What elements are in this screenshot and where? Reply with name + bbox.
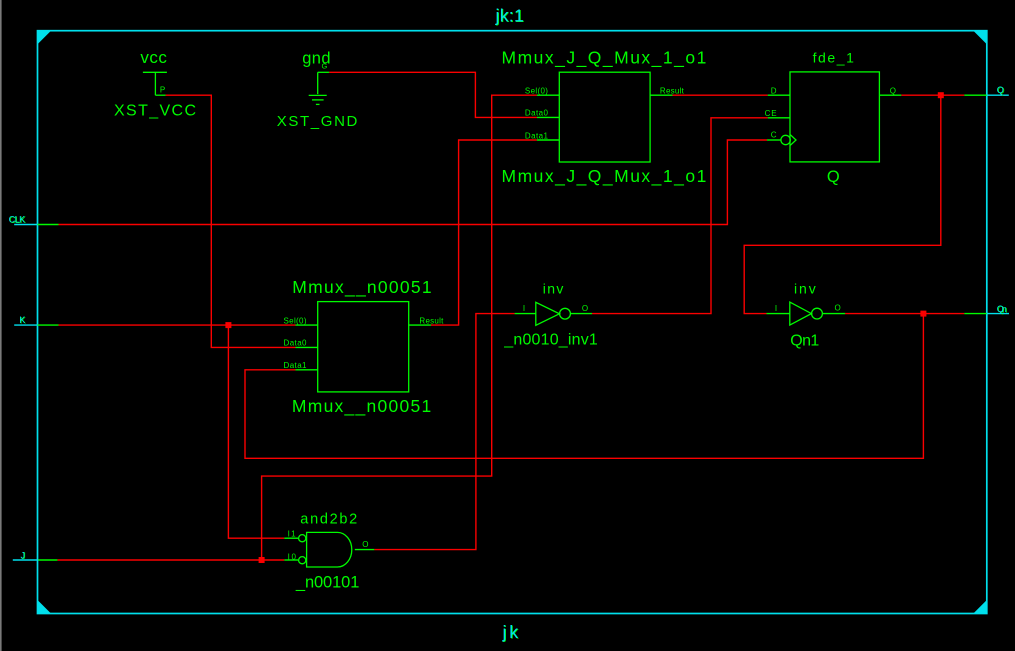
- port CLK lead: [14, 224, 58, 226]
- junction K / Sel(0): [225, 322, 231, 328]
- flip-flop U2 fde_1 body: [790, 72, 879, 162]
- svg-text:Data0: Data0: [525, 109, 549, 118]
- U3 pin stub Data1: [296, 369, 318, 371]
- svg-text:Data1: Data1: [284, 361, 308, 370]
- U1 pin stub Sel(0): [537, 94, 559, 96]
- svg-text:Data1: Data1: [525, 131, 549, 140]
- svg-text:P: P: [160, 85, 165, 94]
- svg-text:Qn1: Qn1: [790, 333, 819, 350]
- U2 pin stub C: [767, 139, 781, 141]
- U1 pin stub Data1: [537, 139, 559, 141]
- wire K net: [59, 324, 296, 326]
- U6 input stub I0: [284, 559, 298, 561]
- svg-text:Q: Q: [997, 85, 1004, 95]
- mux U1 Mmux_J_Q_Mux_1_o1 body: [559, 72, 650, 162]
- wire Q output net: [901, 94, 964, 96]
- svg-text:Sel(0): Sel(0): [284, 316, 307, 325]
- U5 bubble: [812, 308, 823, 319]
- U6 input bubble I0: [299, 557, 306, 564]
- wire Q feedback to Qn1 input: [744, 95, 941, 313]
- border corner top-right: [973, 31, 987, 45]
- and gate U6 _n00101 body: [307, 532, 352, 567]
- svg-text:Q: Q: [827, 168, 840, 186]
- port CLK label: [9, 214, 26, 225]
- U3 pin stub Data0: [296, 346, 318, 348]
- port Qn lead: [964, 313, 1009, 315]
- U5 input stub: [767, 313, 790, 315]
- svg-text:CE: CE: [765, 109, 777, 118]
- wire K to and2b2 I1: [228, 325, 284, 538]
- U6 input bubble I1: [299, 535, 306, 542]
- port K lead: [14, 324, 58, 326]
- svg-text:_n0010_inv1: _n0010_inv1: [503, 331, 598, 348]
- svg-text:I: I: [775, 304, 777, 313]
- wire inv1 output to fde CE: [592, 118, 768, 314]
- svg-text:Sel(0): Sel(0): [525, 87, 548, 96]
- svg-text:_n00101: _n00101: [295, 574, 360, 592]
- U1 pin stub Result: [650, 94, 672, 96]
- border corner top-left: [38, 31, 52, 45]
- U6 input stub I1: [284, 537, 298, 539]
- border corner bottom-right: [973, 600, 987, 614]
- svg-text:Mmux__n00051: Mmux__n00051: [292, 277, 431, 298]
- port Qn label: [997, 304, 1008, 315]
- U2 clock bubble: [781, 135, 790, 144]
- U6 output stub: [355, 549, 375, 551]
- U2 pin stub Q: [879, 94, 901, 96]
- wire gnd to Mmux_J_Q_Mux_1_o1 Data0: [329, 72, 537, 117]
- svg-text:Result: Result: [419, 316, 444, 325]
- inverter U5 Qn1 triangle: [790, 302, 812, 325]
- svg-text:O: O: [835, 304, 841, 313]
- svg-text:fde_1: fde_1: [813, 50, 855, 66]
- wire Qn1 output net: [845, 313, 964, 315]
- U2 pin stub CE: [768, 117, 790, 119]
- svg-text:Qn: Qn: [997, 304, 1007, 314]
- inverter U4 _n0010_inv1 triangle: [536, 302, 560, 325]
- svg-text:jk: jk: [502, 622, 519, 642]
- port Q lead: [964, 94, 1009, 96]
- junction J / I0: [259, 557, 265, 563]
- U5 output stub: [822, 313, 845, 315]
- wire Mmux__n00051 result to top mux Data1: [431, 140, 537, 325]
- sheet title bottom jk: [502, 622, 520, 643]
- port Q label: [997, 85, 1005, 96]
- svg-text:I0: I0: [288, 552, 297, 561]
- power symbol vcc: [143, 72, 167, 95]
- port K label: [19, 315, 26, 326]
- mux U3 Mmux__n00051 body: [318, 302, 409, 392]
- svg-text:J: J: [21, 550, 26, 560]
- svg-text:Result: Result: [660, 87, 685, 96]
- junction Q output: [938, 92, 944, 98]
- wire J to Mmux_J_Q_Mux_1_o1 Sel(0): [262, 95, 537, 560]
- svg-text:Data0: Data0: [284, 339, 308, 348]
- svg-text:gnd: gnd: [302, 49, 330, 67]
- port J lead: [13, 559, 58, 561]
- wire mux result to fde D: [673, 94, 768, 96]
- U4 input stub: [515, 313, 536, 315]
- wire Qn net to Mmux__n00051 Data1: [245, 314, 923, 459]
- svg-text:XST_VCC: XST_VCC: [114, 102, 196, 119]
- svg-text:Mmux__n00051: Mmux__n00051: [292, 396, 431, 417]
- svg-text:D: D: [771, 87, 777, 96]
- U4 bubble: [560, 308, 571, 319]
- svg-text:jk:1: jk:1: [495, 5, 524, 25]
- U1 pin stub Data0: [537, 116, 559, 118]
- wire CLK net: [59, 140, 768, 225]
- wire J net: [57, 559, 284, 561]
- svg-text:C: C: [771, 131, 777, 140]
- U2 clock arrow: [790, 135, 796, 146]
- border corner bottom-left: [38, 600, 52, 614]
- svg-text:O: O: [582, 304, 588, 313]
- svg-text:I: I: [523, 304, 525, 313]
- svg-text:vcc: vcc: [140, 48, 167, 67]
- wire and2b2 output to inv1 input: [374, 314, 514, 550]
- sheet title top jk:1: [495, 5, 525, 26]
- svg-text:I1: I1: [288, 529, 297, 538]
- junction Qn output: [920, 311, 926, 317]
- svg-text:O: O: [362, 540, 368, 549]
- svg-text:inv: inv: [543, 280, 564, 296]
- svg-text:CLK: CLK: [9, 214, 26, 224]
- svg-text:Q: Q: [890, 87, 896, 96]
- U3 pin stub Result: [409, 324, 431, 326]
- U4 output stub: [570, 313, 592, 315]
- ground symbol gnd: [309, 72, 330, 104]
- U3 pin stub Sel(0): [296, 324, 318, 326]
- port J label: [21, 550, 26, 561]
- window edge stripe: [0, 0, 2, 651]
- svg-text:K: K: [19, 315, 25, 325]
- U2 pin stub D: [768, 94, 790, 96]
- wire vcc to Mmux__n00051 Data0: [166, 95, 296, 347]
